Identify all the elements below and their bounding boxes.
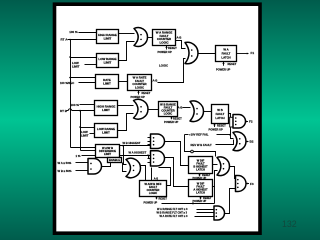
svg-text:W A RATE FLT CNT ≥ 3: W A RATE FLT CNT ≥ 3: [160, 214, 188, 218]
block W A/W B DIFFERENCE LIMIT: [96, 145, 120, 158]
svg-text:RT A: RT A: [61, 37, 69, 41]
block W A/W B DIFF FAULT COUNTER LOGIC: [140, 181, 167, 197]
and-gate G5 (F2): [233, 115, 245, 129]
svg-text:F1: F1: [251, 51, 255, 55]
wire GB-HI input stub 1: [148, 137, 151, 139]
svg-text:W B RANGE FLT CNT ≥ 3: W B RANGE FLT CNT ≥ 3: [157, 211, 188, 215]
wire GB-HI out to B-HIGHEST latch: [165, 142, 189, 166]
junction trunk B low tap: [79, 126, 81, 128]
svg-text:LATCH: LATCH: [196, 190, 205, 194]
svg-text:A-B: A-B: [178, 106, 183, 110]
or-gate G9 (diff fault): [217, 157, 229, 176]
svg-text:POWER UP: POWER UP: [209, 127, 224, 131]
reset arrow latch B: [213, 123, 215, 127]
wire G5 low input from below: [230, 128, 232, 135]
wire RT B hop over trunk A: [68, 109, 72, 111]
svg-text:POWER UP: POWER UP: [216, 68, 231, 72]
wire diff counter A-B out feedback: [159, 168, 171, 186]
wire W B HIGHEST down to OR G8: [124, 146, 127, 165]
svg-text:W B HIGHEST: W B HIGHEST: [123, 141, 141, 145]
wire G1 out to W A RANGE FAULT COUNTER: [148, 37, 153, 39]
wire B-highest latch out to OR G9: [213, 164, 218, 166]
svg-text:LIMIT: LIMIT: [104, 36, 112, 40]
wire G6 top input stub: [231, 135, 234, 139]
junction +10V/G5: [229, 134, 231, 136]
reset arrow rate counter: [137, 91, 139, 95]
wire RT A to HIGH RANGE LIMIT A: [68, 39, 97, 41]
block W B RANGE FAULT COUNTER LOGIC: [159, 102, 178, 117]
wire G4 out to W B FAULT LATCH: [204, 111, 212, 113]
wire diff counter top input 2: [151, 168, 153, 181]
wire GA-HI out down to A-HIGHEST latch: [165, 158, 189, 187]
svg-text:LIMIT: LIMIT: [102, 108, 110, 112]
svg-text:LOGIC: LOGIC: [164, 111, 173, 115]
junction W A HIGHEST / counter feed: [147, 154, 149, 156]
wire G7 out to ENABLE: [102, 163, 111, 167]
svg-text:+10V REF FAIL: +10V REF FAIL: [189, 133, 209, 137]
svg-text:LATCH: LATCH: [196, 167, 205, 171]
and-gate G10 (F3): [236, 176, 247, 192]
svg-text:POWER UP: POWER UP: [144, 201, 158, 204]
wire counter B out to OR G4: [183, 107, 191, 109]
wire REV W B FAULT wire to G6: [216, 140, 234, 145]
svg-text:REV W B FAULT: REV W B FAULT: [191, 143, 213, 147]
block HIGH RANGE LIMIT (A): [97, 30, 119, 44]
svg-text:100 %: 100 %: [71, 103, 80, 107]
svg-text:LOGIC: LOGIC: [159, 63, 168, 67]
or-gate G4 (B fault): [190, 101, 203, 122]
svg-text:W A HIGHEST: W A HIGHEST: [129, 151, 147, 155]
or-gate G8 (diff enable): [126, 158, 140, 177]
wire A-highest latch out to OR G9: [213, 186, 215, 188]
or-gate G3 (B range fault): [134, 99, 148, 119]
wire RT B to HIGH RANGE LIMIT B: [72, 110, 95, 112]
wire 100% to HIGH RANGE LIMIT B: [80, 104, 95, 106]
svg-text:W B ≥ 50%: W B ≥ 50%: [58, 169, 72, 173]
block LOW RANGE LIMIT (B): [95, 124, 118, 138]
output arrow to B2: [246, 141, 249, 143]
svg-text:F3: F3: [250, 182, 254, 186]
wire RT B lead: [67, 110, 69, 112]
reset arrow counter B: [170, 116, 172, 119]
wire GB-HI input stub 3: [148, 144, 151, 146]
wire G8 out down to diff counter: [141, 166, 146, 181]
wire ENABLE down to OR G8: [123, 163, 127, 172]
wire G11 out up to G10: [225, 189, 236, 214]
wire G2 out to W A FAULT LATCH: [199, 53, 216, 55]
svg-text:POWER UP: POWER UP: [164, 120, 179, 124]
wire trunk A tap to RATE LIMIT: [71, 77, 96, 79]
svg-text:132: 132: [282, 219, 297, 229]
svg-text:100 %/SEC: 100 %/SEC: [60, 81, 74, 85]
block LOW RANGE LIMIT (A): [97, 54, 119, 68]
wire power-up rail riser to G9: [215, 171, 218, 204]
connector ring on power-fail wire: [191, 150, 194, 153]
svg-text:LIMIT: LIMIT: [81, 134, 89, 138]
svg-text:W A RANGE FLT CNT ≥ 3: W A RANGE FLT CNT ≥ 3: [157, 207, 188, 211]
wire HIGH RANGE A out to OR G1: [119, 33, 135, 35]
block W DIF FAULT B HIGHEST LATCH: [189, 157, 213, 174]
wire RT A trunk vertical: [70, 40, 72, 148]
wire RATE LIMIT out to rate counter: [119, 81, 128, 83]
wire rate counter A-B to G2 lower input: [158, 59, 186, 83]
wire trunk A into DIFFERENCE LIMIT: [71, 147, 96, 149]
svg-text:POWER UP: POWER UP: [158, 50, 173, 54]
svg-text:LOGIC: LOGIC: [135, 85, 144, 89]
svg-text:ENABLE: ENABLE: [109, 158, 120, 162]
or-gate G6 (B2): [233, 132, 246, 151]
svg-text:F2: F2: [249, 120, 253, 124]
value label LOW LIMIT (A): [72, 61, 80, 68]
block W A FAULT LATCH: [216, 46, 237, 62]
svg-text:100 %: 100 %: [69, 30, 78, 34]
or-gate G2 (A fault): [185, 42, 198, 63]
wire 1% to DIFFERENCE LIMIT: [82, 155, 96, 157]
wire +10V REF FAIL wire left tick: [185, 134, 189, 136]
wire cond1 to AND G11: [197, 209, 215, 211]
wire GA-HI input stub 3: [148, 162, 151, 164]
wire LOW RANGE B out up to OR G3: [118, 114, 134, 131]
reset arrow B-highest latch: [198, 173, 200, 176]
wire cond3 to AND G11: [195, 216, 215, 218]
and-gate GA-HI (W A highest fault): [151, 151, 165, 166]
svg-text:LATCH: LATCH: [221, 55, 230, 59]
svg-text:RESET: RESET: [142, 91, 151, 95]
wire W A HIGHEST wire: [120, 155, 151, 157]
block HIGH RANGE LIMIT (B): [95, 101, 118, 116]
reset arrow counter A: [165, 46, 167, 50]
svg-text:LIMIT: LIMIT: [104, 152, 111, 156]
svg-text:A-B: A-B: [154, 178, 159, 181]
junction trunk A rate tap: [69, 77, 71, 79]
reset arrow latch A: [222, 62, 224, 66]
white schematic panel with black frame: [55, 4, 261, 233]
svg-text:LIMIT: LIMIT: [72, 64, 80, 68]
wire LOW RANGE A out up to OR G1: [119, 42, 135, 61]
wire A-B out down to OR G2 top input: [176, 41, 186, 49]
wire +10V REF FAIL wire to G6: [217, 134, 231, 136]
svg-text:RESET: RESET: [173, 116, 182, 120]
wire W A HIGHEST down to diff counter: [148, 156, 150, 159]
reset arrow diff counter: [155, 196, 157, 199]
junction W B HIGHEST / G8 feed: [122, 145, 124, 147]
svg-text:1 %: 1 %: [76, 154, 81, 158]
block W DIF FAULT A HIGHEST LATCH: [189, 180, 213, 197]
and-gate G7 (enable): [88, 159, 102, 175]
output arrow to F1: [236, 53, 249, 55]
svg-text:A-B: A-B: [153, 79, 158, 83]
wire GB-HI input stub 2: [148, 141, 151, 143]
svg-text:LATCH: LATCH: [215, 116, 224, 120]
wire GA-HI input stub 2: [148, 158, 151, 160]
svg-text:RESET: RESET: [217, 123, 226, 127]
connector on power-up rail: [192, 202, 194, 204]
wire cond2 to AND G11: [197, 212, 215, 214]
svg-text:POWER UP: POWER UP: [193, 200, 207, 203]
wire G3 out to W B RANGE FAULT COUNTER: [149, 109, 159, 111]
wire trunk B into DIFFERENCE LIMIT: [81, 150, 96, 152]
wire trunk A to LOW RANGE LIMIT A: [71, 57, 97, 59]
svg-text:A-B: A-B: [177, 35, 182, 39]
block RATE LIMIT (A): [96, 75, 119, 89]
junction RT A trunk: [69, 39, 71, 41]
output arrow to F3: [246, 183, 249, 185]
wire ring wire right and down: [194, 152, 216, 157]
wire 100%/SEC to RATE LIMIT: [79, 82, 96, 84]
wire HIGH RANGE B out to OR G3: [118, 105, 134, 107]
input block before G5: [230, 117, 235, 127]
block W A RANGE FAULT COUNTER LOGIC: [153, 30, 176, 46]
wire GA-HI input stub 1: [148, 155, 151, 157]
junction RT B trunk: [79, 110, 81, 112]
wire LOW LIMIT label to box A: [85, 64, 97, 66]
svg-text:RESET: RESET: [228, 62, 237, 66]
value label LOW LIMIT (B): [81, 130, 89, 137]
block W B FAULT LATCH: [212, 105, 229, 124]
or-gate G1 (A range fault): [134, 28, 148, 47]
wire RT B trunk vertical: [80, 111, 82, 151]
svg-text:LIMIT: LIMIT: [104, 60, 112, 64]
svg-text:LIMIT: LIMIT: [103, 81, 111, 85]
reset arrow A-highest latch: [199, 196, 201, 199]
svg-text:LIMIT: LIMIT: [102, 130, 110, 134]
output arrow to F2: [246, 121, 249, 123]
block W A RATE FAULT COUNTER LOGIC: [128, 75, 152, 91]
svg-text:POWER UP: POWER UP: [131, 95, 146, 99]
block ENABLE: [108, 158, 122, 163]
svg-text:LOGIC: LOGIC: [159, 40, 168, 44]
and-gate G11 (3-count): [214, 206, 225, 220]
and-gate GB-HI (W B highest fault): [151, 134, 165, 149]
wire W B HIGHEST wire: [120, 145, 151, 147]
junction trunk A low-range tap: [69, 56, 71, 58]
wire G9 out down to AND G10: [230, 167, 236, 179]
svg-text:RESET: RESET: [159, 197, 168, 200]
wire WB50 to AND G7: [76, 170, 89, 172]
wire latch B out to AND G5: [229, 114, 231, 118]
wire WA50 to AND G7: [76, 162, 89, 164]
svg-text:RESET: RESET: [168, 46, 177, 50]
svg-text:RT B: RT B: [60, 109, 68, 113]
svg-text:LOGIC: LOGIC: [149, 191, 157, 195]
wire trunk B to LOW RANGE LIMIT B: [81, 127, 95, 129]
svg-text:W A ≥ 50%: W A ≥ 50%: [58, 161, 72, 165]
wire 100% to HIGH RANGE LIMIT A: [79, 32, 97, 34]
svg-text:B2: B2: [250, 140, 254, 144]
wire LOW LIMIT label to box B: [90, 133, 95, 135]
wire power-up rail horizontal: [162, 203, 215, 205]
wire +10V branch down to ring wire: [185, 135, 191, 152]
